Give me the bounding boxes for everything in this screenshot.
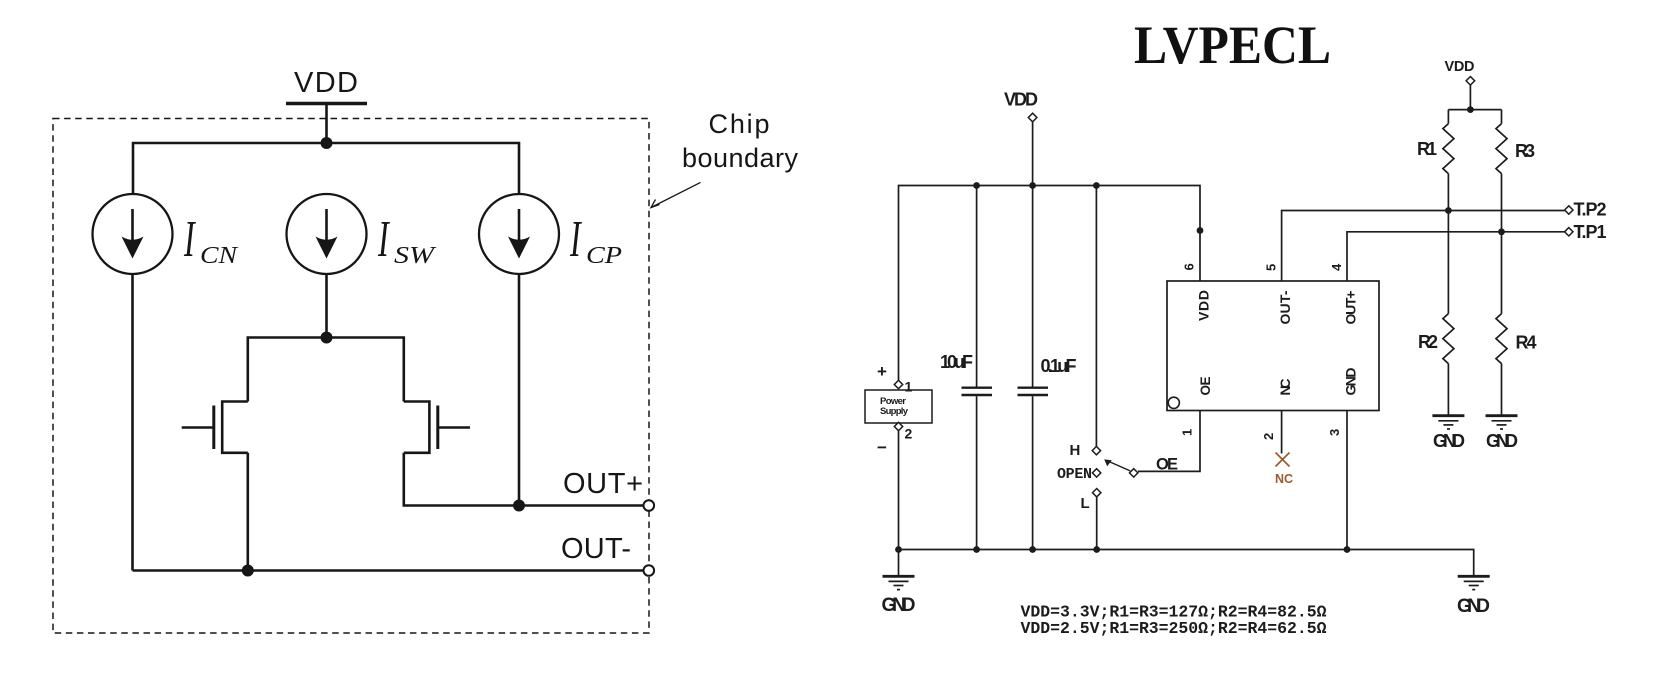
power supply terminal 1 [894, 380, 902, 388]
VDD supply bar [286, 102, 367, 105]
node OUT+ junction [513, 500, 525, 512]
svg-text:SW: SW [394, 243, 437, 269]
title LVPECL [1134, 15, 1331, 75]
wire tee horizontal [1448, 109, 1501, 111]
junction dot at tee [1467, 106, 1474, 113]
junction dot on pin6 wire [1197, 227, 1204, 234]
wire I_CP to OUT+ node [518, 274, 521, 506]
capacitor C2 [1018, 186, 1049, 550]
svg-text:CP: CP [586, 243, 622, 269]
label GND under R4 [1486, 431, 1518, 451]
wire power supply to bottom rail [898, 431, 900, 550]
junction dots on top rail [973, 182, 1100, 189]
svg-text:CN: CN [200, 243, 239, 269]
svg-text:OUT-: OUT- [561, 533, 631, 565]
label GND bottom right [1457, 596, 1490, 617]
pin number 4 [1329, 263, 1344, 271]
switch SW1 blade with arrow [1104, 459, 1130, 471]
terminal OUT- [644, 565, 655, 576]
svg-text:T.P1: T.P1 [1574, 222, 1607, 242]
power supply PS1 text [880, 396, 909, 417]
power supply PS1 box [865, 390, 932, 423]
terminal T.P1 diamond [1565, 228, 1573, 236]
chip boundary dashed box [53, 119, 649, 634]
svg-text:R4: R4 [1516, 333, 1537, 353]
svg-text:OUT+: OUT+ [563, 468, 643, 500]
wire left ground stub [898, 550, 900, 576]
label R2 [1418, 332, 1438, 352]
resistor R2 [1443, 314, 1454, 416]
wire pin 2 to no-connect [1281, 411, 1283, 454]
wire pin 5 to T.P2 [1282, 211, 1565, 282]
svg-text:L: L [1081, 495, 1090, 512]
label H [1070, 442, 1081, 459]
label OE [1156, 456, 1178, 474]
wire I_CN to OUT- rail [131, 274, 134, 571]
note line 1 [1021, 603, 1327, 622]
svg-text:GND: GND [1433, 431, 1465, 451]
current source I_CP [479, 194, 559, 274]
pin number 2 [1261, 433, 1276, 440]
LEFT SCHEMATIC [53, 67, 799, 633]
label pin 2 of power supply [905, 426, 913, 442]
svg-text:+: + [877, 362, 887, 381]
svg-text:10uF: 10uF [940, 352, 973, 372]
label I_SW [377, 210, 436, 269]
label Chip boundary [682, 109, 799, 173]
capacitor C1 label 10uF [940, 352, 973, 372]
svg-text:6: 6 [1182, 263, 1197, 270]
svg-text:R2: R2 [1418, 332, 1438, 352]
pin number 1 [1180, 429, 1195, 436]
power net VDD label (top right) [1445, 59, 1475, 75]
ground symbol bottom right [1458, 576, 1490, 589]
wire VDD to R1 R3 tee [1469, 85, 1471, 110]
current source I_CN [93, 194, 173, 274]
wire pin 3 to bottom rail [1346, 411, 1348, 550]
wire gate rail [248, 338, 404, 402]
ground symbol under R4 [1486, 416, 1518, 429]
wire bottom rail [899, 550, 1474, 576]
label I_CN [183, 210, 239, 269]
wire VDD to top rail [1032, 122, 1034, 186]
wire VDD bar to top rail [325, 104, 328, 144]
label L [1081, 495, 1090, 512]
resistor R4 [1496, 314, 1507, 416]
no-connect X on pin 2 [1276, 453, 1290, 467]
svg-text:I: I [377, 210, 390, 268]
pin number 5 [1264, 264, 1279, 271]
svg-text:GND: GND [1457, 596, 1490, 617]
svg-text:GND: GND [882, 595, 916, 616]
junction dot R3 on T.P1 [1498, 228, 1505, 235]
svg-text:GND: GND [1486, 431, 1518, 451]
junction dots on bottom rail [895, 546, 1350, 553]
label R1 [1417, 139, 1437, 159]
ground symbol bottom left [883, 576, 915, 589]
label OUT- [561, 533, 631, 565]
pin name OUT- [1277, 290, 1293, 324]
resistor R3 [1496, 110, 1507, 174]
power net VDD label (top left) [1004, 90, 1038, 110]
svg-text:5: 5 [1264, 264, 1279, 271]
svg-text:GND: GND [1343, 368, 1359, 396]
svg-text:2: 2 [905, 426, 913, 442]
wire M1 drain to OUT- rail [247, 453, 250, 571]
label R4 [1516, 333, 1537, 353]
pin name OE [1198, 377, 1213, 396]
svg-text:VDD=2.5V;R1=R3=250Ω;R2=R4=62.5: VDD=2.5V;R1=R3=250Ω;R2=R4=62.5Ω [1021, 619, 1327, 638]
switch SW1 H terminal [1092, 446, 1100, 454]
label GND bottom left [882, 595, 916, 616]
svg-text:NC: NC [1275, 472, 1293, 486]
svg-text:VDD: VDD [1004, 90, 1038, 110]
svg-text:VDD: VDD [1196, 290, 1212, 321]
capacitor C1 [962, 186, 993, 550]
wire switch common to pin 1 [1138, 411, 1200, 472]
node gate rail junction [321, 332, 333, 344]
wire top rail [133, 143, 519, 194]
power symbol VDD diamond (top left) [1028, 113, 1037, 122]
svg-text:VDD: VDD [1445, 59, 1475, 75]
label GND under R2 [1433, 431, 1465, 451]
wire R1 to R2 [1447, 174, 1449, 314]
svg-text:4: 4 [1329, 263, 1344, 271]
pin name OUT+ [1343, 291, 1359, 325]
junction dot R1 on T.P2 [1445, 207, 1452, 214]
note line 2 [1021, 619, 1327, 638]
svg-text:boundary: boundary [682, 143, 799, 173]
svg-text:1: 1 [1180, 429, 1195, 436]
svg-text:VDD: VDD [294, 67, 358, 99]
transistor M2 (right PMOS) [404, 402, 470, 453]
pin number 3 [1327, 429, 1342, 436]
svg-text:T.P2: T.P2 [1574, 200, 1607, 220]
svg-text:OE: OE [1198, 377, 1213, 396]
power supply terminal 2 [894, 422, 902, 430]
wire OUT- [133, 569, 644, 572]
label R3 [1515, 141, 1535, 161]
svg-text:NC: NC [1277, 379, 1293, 396]
svg-text:0.1uF: 0.1uF [1041, 356, 1077, 376]
svg-text:Chip: Chip [709, 109, 770, 139]
pin name VDD [1196, 290, 1212, 321]
label T.P1 [1574, 222, 1607, 242]
label OUT+ [563, 468, 643, 500]
transistor M1 (left PMOS) [182, 402, 248, 453]
svg-text:I: I [183, 210, 196, 268]
ground symbol under R2 [1432, 416, 1464, 429]
svg-text:2: 2 [1261, 433, 1276, 440]
pin name GND [1343, 368, 1359, 396]
svg-text:LVPECL: LVPECL [1134, 15, 1331, 75]
resistor R1 [1443, 110, 1454, 174]
power supply PS1 plus label [877, 362, 887, 381]
svg-text:OUT+: OUT+ [1343, 291, 1359, 325]
svg-text:Supply: Supply [880, 406, 909, 417]
switch SW1 OPEN terminal [1092, 469, 1100, 477]
RIGHT SCHEMATIC [865, 15, 1607, 638]
label NC (no-connect) [1275, 472, 1293, 486]
pin name NC [1277, 379, 1293, 396]
terminal OUT+ [644, 500, 655, 511]
power supply minus label [877, 438, 887, 457]
svg-text:R3: R3 [1515, 141, 1535, 161]
power symbol VDD diamond (top right) [1466, 77, 1475, 86]
wire R3 to R4 [1501, 174, 1503, 314]
wire pin 4 to T.P1 [1347, 232, 1565, 281]
IC U1 OE bubble [1168, 397, 1179, 408]
label I_CP [569, 210, 622, 269]
svg-text:−: − [877, 438, 887, 457]
label OPEN [1057, 466, 1092, 483]
svg-text:I: I [569, 210, 582, 268]
svg-text:3: 3 [1327, 429, 1342, 436]
arrow to chip boundary [651, 182, 701, 207]
VDD label (left schematic) [294, 67, 358, 99]
wire top rail [899, 186, 1201, 381]
switch SW1 L terminal [1093, 489, 1101, 497]
current source I_SW [287, 194, 367, 274]
IC U1 body [1167, 281, 1379, 411]
label pin 1 of power supply [905, 379, 913, 395]
switch SW1 common terminal [1130, 469, 1138, 477]
svg-text:H: H [1070, 442, 1081, 459]
svg-text:OUT-: OUT- [1277, 290, 1293, 324]
label T.P2 [1574, 200, 1607, 220]
wire M2 drain to OUT+ node [404, 453, 519, 506]
svg-text:R1: R1 [1417, 139, 1437, 159]
pin number 6 [1182, 263, 1197, 270]
node OUT- junction [242, 565, 254, 577]
terminal T.P2 diamond [1565, 206, 1573, 214]
node junction on top rail [321, 137, 333, 149]
svg-text:1: 1 [905, 379, 913, 395]
wire switch L to bottom rail [1096, 497, 1098, 550]
wire OUT+ [519, 504, 644, 507]
wire top rail to switch H [1095, 186, 1097, 447]
capacitor C2 label 0.1uF [1041, 356, 1077, 376]
wire I_SW to gate node [325, 274, 328, 338]
svg-text:OPEN: OPEN [1057, 466, 1092, 483]
